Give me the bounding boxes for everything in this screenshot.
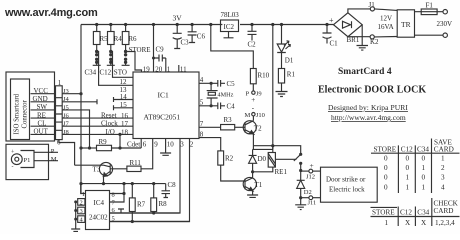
svg-text:R8: R8: [159, 200, 168, 208]
svg-text:K2: K2: [370, 38, 379, 46]
crystal X1 4MHz: [207, 83, 218, 106]
svg-text:C12: C12: [401, 145, 413, 153]
svg-text:8: 8: [200, 131, 204, 139]
relay contact arm: [273, 146, 301, 181]
stub IC1 pin15: [114, 105, 134, 110]
connector signal labels: [33, 87, 49, 136]
wire piezo P stub: [34, 151, 58, 153]
svg-text:1: 1: [422, 164, 426, 172]
capacitor C4: [218, 103, 225, 110]
svg-text:1: 1: [167, 66, 171, 74]
svg-text:C12: C12: [400, 209, 412, 217]
wire jumper C12 to IC1 pin12: [111, 52, 133, 78]
svg-text:0: 0: [384, 154, 388, 162]
table save card header: [374, 138, 454, 153]
ground pin10: [160, 139, 171, 156]
svg-text:R4: R4: [114, 35, 123, 43]
svg-text:C4: C4: [227, 102, 236, 110]
svg-text:P: P: [51, 148, 55, 155]
wire pin2 column: [110, 139, 190, 222]
svg-text:R7: R7: [137, 201, 146, 209]
svg-text:7: 7: [112, 200, 116, 207]
wire bridge AC top to terminal J1: [348, 7, 397, 13]
svg-text:C5: C5: [227, 80, 236, 88]
connector row wires: [31, 94, 56, 135]
svg-text:8: 8: [112, 191, 115, 198]
piezo P1 symbol: [11, 151, 34, 168]
capacitor C3: [173, 25, 182, 49]
svg-text:Electronic DOOR LOCK: Electronic DOOR LOCK: [318, 85, 426, 96]
svg-text:12: 12: [120, 78, 128, 86]
svg-text:R1: R1: [287, 71, 296, 79]
resistor R1: [278, 69, 284, 92]
svg-text:R6: R6: [128, 35, 137, 43]
svg-text:T1: T1: [255, 181, 263, 189]
svg-text:Electric lock: Electric lock: [329, 186, 365, 194]
svg-text:4: 4: [200, 76, 204, 84]
svg-text:IC1: IC1: [158, 91, 170, 100]
capacitor C8: [162, 184, 171, 198]
svg-text:I/O: I/O: [106, 128, 115, 136]
jumper J10 M: [252, 113, 255, 116]
table check card row: [385, 219, 456, 227]
svg-text:M: M: [51, 156, 57, 163]
piezo box: [6, 144, 49, 179]
svg-text:http://www.avr.4mg.com: http://www.avr.4mg.com: [331, 113, 406, 122]
wire RE row Reset to IC1 pin16: [62, 117, 133, 119]
transistor T1: [243, 172, 256, 195]
capacitor C9: [154, 25, 166, 73]
wire bridge AC bottom to terminal K2: [348, 35, 397, 39]
svg-text:0: 0: [422, 154, 426, 162]
svg-text:5: 5: [200, 99, 204, 107]
svg-text:Clock: Clock: [101, 120, 118, 128]
ground R1: [276, 92, 288, 97]
wire pin3 column: [110, 139, 181, 214]
svg-text:C34: C34: [85, 69, 97, 77]
svg-text:R5: R5: [100, 35, 109, 43]
pin labels J3-J8: [63, 88, 70, 136]
wire SW row down to Cdet row: [62, 110, 89, 148]
svg-text:3V: 3V: [173, 14, 183, 23]
labels IC1 pin12 pin13: [120, 78, 128, 94]
svg-text:C34: C34: [417, 145, 429, 153]
wire left VCC vertical: [80, 25, 82, 194]
svg-text:STORE: STORE: [129, 46, 151, 54]
svg-text:0: 0: [384, 164, 388, 172]
label 3V: [173, 14, 183, 23]
svg-text:78L03: 78L03: [221, 11, 240, 19]
svg-text:Designed by: Kripa PURI: Designed by: Kripa PURI: [328, 103, 408, 112]
svg-text:Reset: Reset: [101, 112, 117, 120]
svg-text:T2: T2: [254, 125, 262, 133]
svg-text:6: 6: [143, 141, 147, 149]
svg-text:230V: 230V: [437, 20, 453, 28]
IC1 pin7 wire to R3: [199, 126, 221, 128]
resistor R3: [221, 125, 245, 130]
resistor R6: [122, 25, 129, 52]
wire top 3V bus left segment: [81, 24, 222, 26]
IC4 pin1 wire to rail: [81, 184, 86, 194]
wire piezo M stub: [34, 160, 58, 162]
svg-text:16VA: 16VA: [378, 23, 394, 31]
IC1 pin5 wire: [199, 105, 218, 107]
svg-text:TR: TR: [401, 20, 411, 29]
IC4 right pin labels: [112, 191, 116, 222]
wire IC4 pin8 pin7 to rail: [110, 184, 125, 202]
resistor R8: [151, 184, 157, 213]
svg-text:Connector: Connector: [22, 99, 29, 128]
label STORE: [129, 46, 151, 54]
svg-text:ISO Smartcard: ISO Smartcard: [14, 93, 21, 134]
wire CL row Clock to IC1 pin17: [62, 125, 133, 127]
wire 12V feed to R10 branch: [211, 25, 254, 69]
svg-text:P: P: [246, 91, 250, 98]
svg-text:C3: C3: [181, 39, 190, 47]
svg-text:+: +: [251, 96, 255, 104]
svg-text:C6: C6: [197, 33, 206, 41]
regulator IC2 78L03: [221, 20, 239, 32]
resistor R7: [129, 184, 135, 222]
fuse F1: [415, 9, 448, 15]
wire card pin6 to T3 collector: [59, 140, 75, 166]
svg-text:D1: D1: [285, 57, 294, 65]
wire J10 to T2 collector: [252, 116, 254, 121]
svg-text:RE1: RE1: [275, 168, 288, 176]
capacitor C6: [188, 25, 197, 43]
node T3 emitter on rail: [102, 182, 105, 185]
IC1 pin8 wire to R2: [199, 138, 221, 151]
svg-text:19: 19: [143, 66, 151, 74]
IC4 pin3 boxed: [78, 207, 85, 214]
svg-text:J1: J1: [369, 1, 376, 9]
wire jumper STO to IC1 pin19 (STORE): [126, 52, 142, 73]
svg-text:1: 1: [406, 173, 410, 181]
svg-text:J11: J11: [308, 200, 317, 207]
svg-text:C34: C34: [417, 209, 429, 217]
wire jumper C34 to IC1 pin13: [97, 52, 133, 86]
resistor R5: [93, 25, 100, 52]
node junction dots on bus: [95, 23, 329, 26]
svg-text:2: 2: [80, 199, 83, 206]
svg-text:13: 13: [120, 86, 128, 94]
svg-text:J12: J12: [306, 174, 315, 181]
svg-text:1: 1: [58, 79, 62, 87]
svg-text:3: 3: [441, 173, 445, 181]
IC4 pin2 boxed: [78, 199, 85, 206]
svg-text:R2: R2: [225, 155, 234, 163]
wire IC4 pin5 row: [110, 221, 190, 223]
svg-text:R11: R11: [130, 159, 142, 167]
resistor R4: [108, 25, 115, 52]
svg-text:11: 11: [180, 66, 187, 74]
wire VCC row to vertical: [62, 93, 81, 95]
svg-text:SmartCard 4: SmartCard 4: [338, 67, 392, 77]
polarity marks: [251, 96, 255, 112]
svg-text:-: -: [12, 164, 14, 170]
svg-text:18: 18: [121, 128, 129, 136]
jumper C12 pins and ground: [109, 50, 112, 64]
svg-text:T3: T3: [93, 166, 101, 174]
capacitor C2: [248, 25, 257, 41]
svg-text:www.avr.4mg.com: www.avr.4mg.com: [4, 7, 98, 19]
svg-text:0: 0: [406, 164, 410, 172]
svg-text:STORE: STORE: [374, 145, 397, 153]
ISO smartcard connector inner box: [11, 79, 30, 140]
capacitor C1: [323, 25, 332, 44]
svg-text:C9: C9: [156, 46, 165, 54]
wire Cdet pin6 down to R9 row: [140, 139, 142, 149]
svg-text:C8: C8: [168, 181, 177, 189]
svg-text:1: 1: [406, 184, 410, 192]
jumper C34 pins and ground: [95, 50, 98, 64]
jumper J9 P: [252, 91, 255, 94]
title SmartCard 4: [338, 67, 392, 77]
svg-text:X: X: [421, 219, 427, 227]
svg-text:1: 1: [82, 191, 85, 198]
svg-text:0: 0: [384, 173, 388, 181]
site header text: [4, 7, 98, 19]
ground below D2: [295, 198, 306, 210]
svg-text:9: 9: [154, 141, 158, 149]
resistor R2: [218, 151, 245, 181]
relay coil RE1: [253, 146, 276, 172]
wire TR secondary bottom terminal: [415, 33, 448, 37]
transistor T3: [75, 162, 113, 183]
svg-text:24C02: 24C02: [89, 214, 108, 222]
IC1 top pin labels: [143, 66, 187, 74]
svg-text:P1: P1: [24, 157, 31, 164]
svg-text:IC2: IC2: [224, 23, 235, 31]
svg-text:3: 3: [80, 208, 83, 215]
diode D2: [297, 180, 305, 197]
jumper STO pins and ground: [124, 50, 127, 64]
wire VCC rail bottom: [81, 183, 166, 185]
svg-text:+: +: [329, 16, 334, 25]
svg-text:4: 4: [441, 184, 445, 192]
svg-text:AT89C2051: AT89C2051: [144, 113, 181, 122]
svg-text:C12: C12: [100, 69, 112, 77]
svg-text:+: +: [310, 161, 314, 170]
wire IC1 pin11 stub: [178, 65, 180, 72]
svg-text:15: 15: [120, 101, 128, 109]
IC4 pin4 boxed: [78, 216, 85, 223]
svg-text:2: 2: [441, 164, 445, 172]
svg-text:C2: C2: [248, 41, 257, 49]
svg-text:R3: R3: [224, 116, 233, 124]
transformer TR: [397, 10, 414, 37]
wire GND row with end tick: [62, 99, 97, 104]
table check card header: [372, 200, 459, 217]
svg-text:16: 16: [121, 112, 129, 120]
resistor R10: [250, 69, 256, 92]
LED D1: [277, 25, 290, 69]
table save card grid: [371, 139, 460, 194]
wire R9 to I/O row: [119, 134, 121, 148]
svg-text:-: -: [252, 104, 255, 112]
svg-text:1: 1: [441, 154, 445, 162]
svg-text:CARD: CARD: [434, 145, 454, 153]
wire IC4 pin6 row: [110, 212, 180, 214]
ground bridge negative: [357, 25, 369, 50]
svg-text:J10: J10: [256, 112, 265, 119]
svg-text:Cdet: Cdet: [127, 141, 140, 149]
wire main 12V vertical to relay: [272, 25, 274, 150]
door lock box: [321, 167, 378, 202]
svg-text:0: 0: [422, 173, 426, 181]
svg-text:14: 14: [120, 93, 128, 101]
svg-text:C1: C1: [330, 40, 339, 48]
svg-text:3: 3: [180, 141, 184, 149]
svg-text:IC4: IC4: [94, 199, 105, 207]
stub IC1 pin14: [114, 97, 134, 102]
IC1 bottom pin labels: [127, 141, 194, 149]
resistor R9 with pull-up row: [81, 145, 141, 150]
header connector strip J3-J8: [56, 86, 63, 140]
terminal J11: [301, 196, 321, 200]
svg-text:R10: R10: [258, 72, 270, 80]
svg-text:10: 10: [167, 141, 175, 149]
table check card grid: [371, 198, 460, 226]
svg-text:Door strike or: Door strike or: [326, 176, 366, 184]
credit url: [331, 113, 406, 122]
ground T1 emitter: [247, 195, 258, 197]
resistor R11: [110, 166, 141, 171]
ISO connector vertical text: [14, 93, 29, 134]
svg-text:D2: D2: [304, 189, 312, 196]
tick on pin6 row: [118, 209, 124, 213]
svg-text:R9: R9: [99, 138, 108, 146]
label 230V: [437, 20, 453, 28]
svg-text:0: 0: [406, 154, 410, 162]
svg-text:4MHz: 4MHz: [218, 92, 234, 99]
bridge rectifier BR1: [334, 13, 363, 37]
IC1 microcontroller box: [133, 72, 199, 139]
transistor T2: [243, 121, 273, 150]
ground IC2: [224, 32, 234, 38]
svg-text:STORE: STORE: [372, 209, 395, 217]
wire top bus right segment (12V side): [240, 24, 334, 26]
credit Designed by: [328, 103, 408, 112]
svg-text:STO: STO: [114, 69, 127, 77]
svg-text:7: 7: [200, 120, 204, 128]
wire OUT row I/O to IC1 pin18: [62, 133, 133, 135]
svg-text:F1: F1: [426, 2, 434, 10]
svg-text:X: X: [405, 219, 411, 227]
svg-text:1: 1: [385, 219, 389, 227]
terminal J12: [301, 169, 321, 173]
IC1 pin4 wire: [199, 82, 218, 84]
table save card rows: [384, 154, 445, 162]
svg-text:17: 17: [121, 120, 129, 128]
svg-text:M: M: [245, 112, 251, 119]
svg-text:0: 0: [384, 184, 388, 192]
ISO smartcard connector outer box: [6, 72, 55, 141]
svg-text:D0: D0: [258, 155, 267, 163]
IC4 eeprom box: [86, 191, 110, 230]
svg-text:20: 20: [155, 66, 163, 74]
title Electronic DOOR LOCK: [318, 85, 426, 96]
svg-text:1,2,3,4: 1,2,3,4: [435, 219, 455, 227]
svg-text:2: 2: [190, 141, 194, 149]
svg-text:12V: 12V: [380, 15, 392, 23]
capacitor C5: [218, 80, 225, 87]
jumper labels C34 C12 STO: [85, 69, 127, 77]
diode D0: [249, 149, 257, 171]
svg-text:J9: J9: [256, 91, 262, 98]
wire pin9 down to R11: [141, 139, 153, 169]
svg-text:1: 1: [422, 184, 426, 192]
svg-text:CARD: CARD: [434, 207, 454, 215]
wire IC4 ground vertical: [71, 202, 80, 232]
